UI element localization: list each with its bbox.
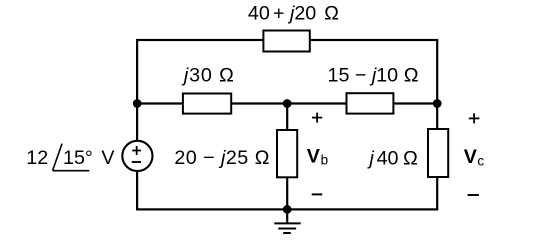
svg-text:12: 12	[26, 147, 48, 169]
label Vb minus sign	[312, 193, 323, 195]
svg-text:40 + j20 Ω: 40 + j20 Ω	[248, 3, 339, 25]
resistor R2 j30 ohm (middle left, horizontal)	[181, 64, 235, 113]
label Vc minus sign	[468, 194, 479, 196]
wire middle vertical branch through Vb	[286, 104, 288, 210]
svg-text:15°: 15°	[63, 147, 93, 169]
wire outer loop (top, right, bottom, left sides)	[137, 40, 437, 209]
label Vc plus sign	[469, 113, 480, 123]
label Vc (bold V with subscript c)	[464, 146, 485, 169]
svg-text:j30 Ω: j30 Ω	[181, 64, 235, 86]
svg-text:j40Ω: j40Ω	[367, 147, 419, 169]
resistor R3 15-j10 ohm (middle right, horizontal)	[328, 64, 419, 113]
voltage source VS 12/15deg V (circle with plus-minus)	[122, 141, 152, 171]
svg-text:20 − j25 Ω: 20 − j25 Ω	[174, 147, 270, 169]
node B (center junction)	[283, 99, 292, 108]
svg-text:15 − j10 Ω: 15 − j10 Ω	[328, 64, 419, 86]
ground	[274, 209, 300, 233]
svg-text:V: V	[101, 147, 115, 169]
label Vb plus sign	[312, 113, 322, 123]
node G (bottom junction at ground)	[283, 205, 292, 214]
node C (right junction)	[433, 99, 442, 108]
resistor R4 20-j25 ohm (center vertical)	[174, 130, 297, 177]
wire middle horizontal from node A to node C	[137, 102, 437, 104]
resistor R5 j40 ohm (right vertical)	[367, 129, 449, 177]
label Vb (bold V with subscript b)	[307, 145, 328, 167]
svg-text:V: V	[307, 145, 320, 167]
svg-text:b: b	[321, 153, 329, 168]
node A (left junction)	[133, 99, 142, 108]
resistor R1 40+j20 ohm (top, horizontal)	[248, 3, 339, 52]
label source value 12 angle 15deg V	[26, 144, 115, 171]
svg-text:c: c	[477, 153, 484, 168]
svg-text:V: V	[464, 146, 477, 168]
